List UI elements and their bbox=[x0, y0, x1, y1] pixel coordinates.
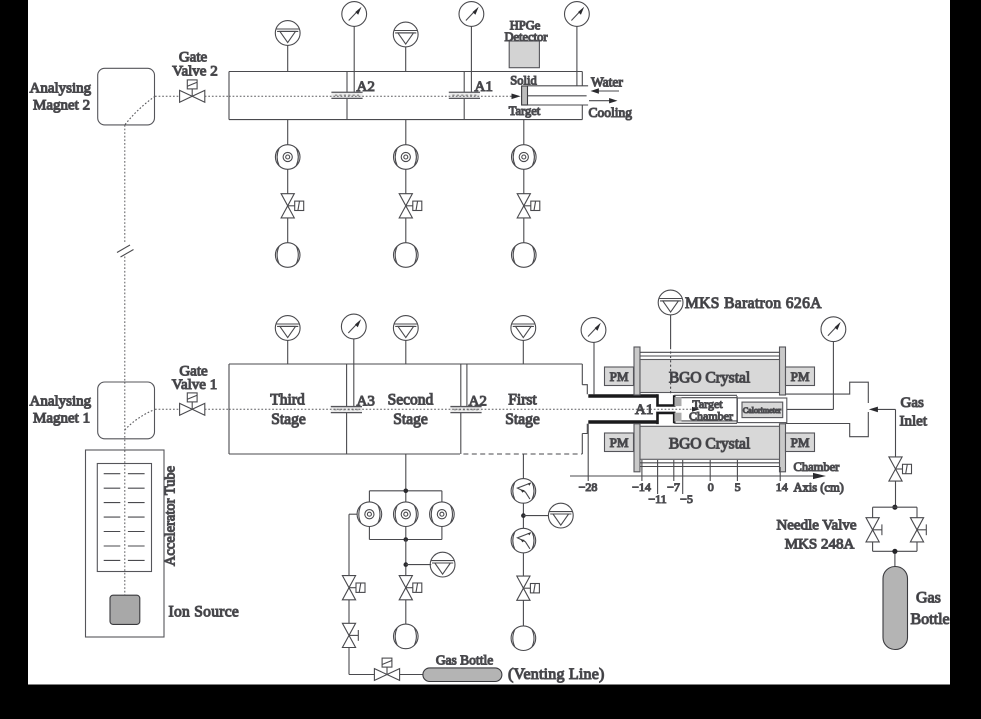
turbo pump left bbox=[357, 502, 382, 527]
water cooling tube bbox=[528, 86, 589, 105]
calorimeter box bbox=[737, 398, 786, 423]
BGO lower right flange bbox=[780, 424, 786, 472]
svg-text:0: 0 bbox=[708, 480, 714, 494]
svg-text:MKS 248A: MKS 248A bbox=[785, 537, 855, 553]
svg-text:BGO Crystal: BGO Crystal bbox=[669, 369, 750, 386]
svg-text:Valve 2: Valve 2 bbox=[172, 64, 217, 80]
gas inlet arrow bbox=[869, 407, 896, 413]
vent gate valve bbox=[374, 658, 399, 680]
beam curve in magnet 1 bbox=[125, 409, 155, 430]
svg-text:Second: Second bbox=[388, 392, 434, 409]
manifold bottom dot bbox=[404, 537, 409, 542]
vacuum gauge (2nd stage backing) bbox=[430, 552, 455, 577]
svg-text:Stage: Stage bbox=[393, 411, 428, 428]
valve 3 bbox=[517, 194, 540, 218]
svg-text:MKS Baratron 626A: MKS Baratron 626A bbox=[685, 295, 822, 312]
chamber aperture hatch upper bbox=[675, 397, 682, 406]
svg-text:Bottle: Bottle bbox=[911, 611, 950, 628]
beam pipe (pumping stages) bbox=[229, 364, 587, 454]
vacuum gauge over section 2 bbox=[393, 22, 418, 71]
stem from second stage bbox=[405, 454, 407, 502]
pump column 1 under top pipe bbox=[287, 120, 289, 243]
dial gauge right of chamber bbox=[821, 317, 846, 410]
gauge line to calorimeter bbox=[787, 408, 834, 410]
link bbox=[522, 503, 524, 528]
dial gauge over chamber entry bbox=[581, 318, 606, 395]
vent stub from left turbo bbox=[349, 513, 357, 515]
valve 2 bbox=[399, 194, 422, 218]
junction dot bbox=[521, 513, 526, 518]
BGO lower left flange bbox=[634, 424, 640, 472]
svg-text:−11: −11 bbox=[648, 492, 666, 506]
chamber right wall bbox=[736, 396, 738, 423]
svg-text:Chamber: Chamber bbox=[794, 460, 841, 474]
svg-text:(Venting Line): (Venting Line) bbox=[508, 666, 605, 683]
chamber wall thin lines lower bbox=[674, 421, 737, 423]
svg-text:Analysing: Analysing bbox=[30, 81, 92, 97]
divider A1 (top pipe) bbox=[463, 72, 465, 120]
BGO upper right flange bbox=[780, 347, 786, 395]
svg-text:Stage: Stage bbox=[505, 411, 540, 428]
svg-text:A1: A1 bbox=[635, 402, 653, 418]
svg-text:5: 5 bbox=[735, 480, 741, 494]
svg-text:−5: −5 bbox=[680, 492, 693, 506]
needle valve junction bottom bbox=[892, 549, 897, 554]
valve 1 bbox=[281, 194, 304, 218]
turbo pump 2 bbox=[394, 145, 419, 170]
divider A2 (second pipe) bbox=[460, 364, 462, 454]
divider A2 (top pipe) bbox=[346, 72, 348, 120]
dial gauge over A3 bbox=[341, 314, 366, 339]
beam arrowhead in chamber bbox=[692, 407, 700, 412]
svg-text:Valve 1: Valve 1 bbox=[172, 377, 217, 393]
backing valve 2nd stage bbox=[399, 576, 422, 600]
gate valve 2 bbox=[180, 80, 205, 102]
MKS Baratron gauge bbox=[658, 290, 683, 395]
BGO upper housing lines bbox=[640, 352, 780, 356]
PM upper left bbox=[605, 367, 634, 386]
svg-text:Solid: Solid bbox=[510, 74, 537, 88]
turbo pump 1 bbox=[275, 145, 300, 170]
dial gauge over A1 bbox=[459, 2, 484, 27]
branch to gauge bbox=[406, 564, 431, 566]
thick entrance tube upper wall bbox=[588, 394, 657, 397]
accelerator electrodes bbox=[104, 474, 145, 561]
vertical dashed beam line bbox=[124, 125, 126, 595]
axis ticks bbox=[588, 424, 780, 494]
svg-text:−7: −7 bbox=[667, 480, 680, 494]
gas bottle right bbox=[883, 567, 908, 650]
turbo pump 3 bbox=[512, 145, 537, 170]
line to vent bottle bbox=[400, 674, 423, 676]
svg-text:Stage: Stage bbox=[271, 411, 306, 428]
svg-text:Inlet: Inlet bbox=[900, 414, 928, 430]
BGO upper left flange bbox=[634, 347, 640, 395]
svg-text:Ion Source: Ion Source bbox=[169, 604, 240, 621]
svg-text:A1: A1 bbox=[475, 79, 493, 95]
backing valve 1st stage bbox=[517, 576, 540, 600]
gas line down bbox=[895, 409, 897, 456]
svg-text:Detector: Detector bbox=[504, 30, 548, 44]
turbo pump middle bbox=[394, 502, 419, 527]
water out arrow bbox=[589, 98, 618, 103]
analysing magnet 2 box bbox=[98, 68, 155, 125]
svg-text:Cooling: Cooling bbox=[589, 105, 633, 120]
branch to gauge bbox=[523, 515, 548, 517]
svg-text:Gas: Gas bbox=[901, 395, 924, 411]
svg-text:A2: A2 bbox=[357, 79, 375, 95]
svg-text:PM: PM bbox=[610, 369, 629, 384]
vent manual valve bbox=[342, 623, 358, 647]
BGO lower housing lines bbox=[640, 463, 780, 467]
svg-text:Analysing: Analysing bbox=[30, 394, 92, 410]
vacuum gauge over section 1 bbox=[275, 21, 300, 72]
vacuum gauge over third stage bbox=[275, 316, 300, 364]
rough pump 1 bbox=[275, 243, 300, 268]
pump column 3 under target bbox=[523, 120, 525, 243]
vacuum gauge over second stage bbox=[393, 316, 418, 364]
dial gauge over target bbox=[565, 2, 590, 86]
svg-text:14: 14 bbox=[776, 480, 788, 494]
rough pump 1st stage bbox=[511, 626, 536, 651]
needle valve rails bbox=[873, 507, 917, 566]
divider A2 upper plate bbox=[466, 364, 468, 407]
analysing magnet 1 box bbox=[98, 382, 155, 439]
manifold junction dot bbox=[404, 489, 409, 494]
svg-text:Axis (cm): Axis (cm) bbox=[794, 481, 844, 495]
chamber wall thin lines upper bbox=[674, 395, 737, 397]
gas line valve bbox=[889, 457, 912, 481]
needle valve junction top bbox=[892, 505, 897, 510]
vacuum gauge over first stage bbox=[511, 316, 536, 364]
beam dashed line top bbox=[155, 95, 512, 97]
stem to pump bbox=[405, 600, 407, 624]
beam dashed line second bbox=[155, 408, 692, 410]
svg-text:−28: −28 bbox=[579, 480, 598, 494]
svg-text:Water: Water bbox=[591, 75, 623, 90]
aperture A3 bbox=[331, 407, 362, 413]
water in arrow bbox=[591, 88, 620, 93]
pump column 2 under top pipe bbox=[405, 120, 407, 243]
gas inlet port bbox=[786, 382, 869, 437]
junction to gauge bbox=[404, 562, 409, 567]
axis numbers bbox=[579, 480, 788, 506]
vacuum gauge (1st stage backing) bbox=[548, 503, 573, 528]
svg-text:Gas: Gas bbox=[916, 590, 941, 607]
accelerator tube outer box bbox=[86, 450, 165, 637]
PM lower left bbox=[605, 433, 634, 452]
HPGe detector box bbox=[509, 41, 539, 68]
vent line down bbox=[349, 514, 374, 674]
dial gauge over A2 bbox=[342, 2, 367, 27]
divider A2 upper plate + gauge stem bbox=[353, 27, 355, 93]
needle valve left bbox=[866, 518, 882, 542]
roots blower 2 bbox=[511, 528, 536, 553]
rough pump 2 bbox=[394, 243, 419, 268]
aperture A2 bbox=[331, 92, 362, 98]
svg-text:Accelerator Tube: Accelerator Tube bbox=[163, 466, 179, 566]
svg-text:Target: Target bbox=[509, 104, 541, 118]
beam pipe (solid target line) bbox=[229, 72, 582, 120]
BGO upper crystal bbox=[640, 360, 780, 393]
turbo pump right bbox=[430, 502, 455, 527]
divider A1 upper plate + gauge stem bbox=[470, 27, 472, 93]
beam arrowhead at solid target bbox=[512, 94, 521, 100]
accelerator tube inner box bbox=[97, 464, 151, 572]
stem to pump bbox=[522, 600, 524, 626]
stem down bbox=[405, 540, 407, 576]
aperture A2 (second pipe) bbox=[450, 407, 481, 413]
svg-text:Calorimeter: Calorimeter bbox=[743, 406, 782, 415]
svg-text:Needle Valve: Needle Valve bbox=[776, 518, 856, 534]
PM upper right bbox=[786, 367, 815, 386]
rough pump 3 bbox=[512, 243, 537, 268]
vent valve with actuator bbox=[342, 576, 365, 600]
stem down bbox=[522, 553, 524, 576]
stem from first stage bbox=[522, 454, 524, 479]
gas line to needle valves bbox=[895, 481, 897, 507]
beam line break symbol bbox=[117, 245, 134, 257]
divider A3 bbox=[346, 364, 348, 454]
axis line bbox=[570, 473, 826, 479]
beam curve in magnet 2 bbox=[125, 96, 155, 125]
svg-text:PM: PM bbox=[791, 369, 810, 384]
ion source box bbox=[110, 595, 140, 624]
roots blower 1 bbox=[511, 479, 536, 504]
rough pump 2nd stage bbox=[394, 624, 419, 649]
svg-text:Chamber: Chamber bbox=[689, 409, 733, 423]
manifold top bbox=[369, 491, 442, 502]
thick entrance tube lower wall bbox=[588, 420, 657, 423]
svg-text:PM: PM bbox=[791, 435, 810, 450]
BGO lower crystal bbox=[640, 426, 780, 459]
chamber aperture hatch lower bbox=[675, 413, 682, 422]
svg-text:First: First bbox=[508, 392, 537, 409]
svg-text:PM: PM bbox=[610, 435, 629, 450]
svg-text:Third: Third bbox=[270, 392, 305, 409]
divider A3 upper plate + gauge stem bbox=[353, 339, 355, 407]
svg-text:Magnet 2: Magnet 2 bbox=[33, 98, 90, 114]
collimator A1 lower bbox=[656, 412, 674, 425]
solid target holder bbox=[522, 86, 528, 105]
svg-text:A3: A3 bbox=[357, 394, 375, 410]
aperture A1 bbox=[449, 92, 480, 98]
gas bottle bottom bbox=[423, 668, 502, 682]
PM lower right bbox=[786, 433, 815, 452]
manifold bottom bbox=[369, 527, 442, 540]
svg-text:Gas Bottle: Gas Bottle bbox=[436, 653, 493, 668]
svg-text:Magnet 1: Magnet 1 bbox=[33, 411, 90, 427]
gate valve 1 bbox=[180, 393, 205, 415]
collimator A1 upper bbox=[656, 394, 674, 407]
svg-text:A2: A2 bbox=[469, 394, 487, 410]
needle valve right bbox=[910, 518, 926, 542]
svg-text:BGO Crystal: BGO Crystal bbox=[669, 436, 750, 453]
